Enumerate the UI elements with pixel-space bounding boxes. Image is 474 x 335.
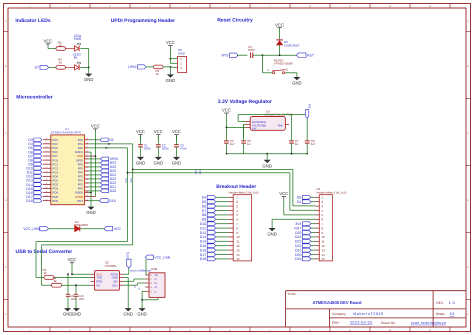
svg-text:10: 10 <box>321 235 325 239</box>
svg-text:100n: 100n <box>248 48 255 52</box>
svg-text:D-: D- <box>138 287 141 290</box>
svg-text:13: 13 <box>321 248 325 252</box>
svg-text:1u: 1u <box>295 142 299 146</box>
svg-text:11: 11 <box>321 240 324 244</box>
svg-text:1/1: 1/1 <box>450 312 455 316</box>
svg-text:MakerIoT2020: MakerIoT2020 <box>353 312 383 316</box>
svg-text:D1: D1 <box>297 200 302 204</box>
svg-text:D18: D18 <box>200 257 206 261</box>
svg-text:VCC: VCC <box>43 38 52 43</box>
svg-text:Breakout Header: Breakout Header <box>216 184 256 190</box>
svg-text:1k: 1k <box>156 72 160 76</box>
svg-text:GND: GND <box>154 161 164 166</box>
svg-text:D11: D11 <box>200 226 206 230</box>
svg-text:GND: GND <box>292 81 302 86</box>
svg-text:9: 9 <box>46 182 47 185</box>
svg-text:Header-Male-2.54_1x15: Header-Male-2.54_1x15 <box>317 190 348 194</box>
svg-text:VCC: VCC <box>279 191 288 196</box>
svg-text:D23: D23 <box>295 240 301 244</box>
svg-text:TAB: TAB <box>277 124 282 127</box>
svg-text:D18: D18 <box>26 199 32 203</box>
svg-text:BL: BL <box>74 56 78 60</box>
svg-text:D7: D7 <box>202 209 207 213</box>
svg-text:D24: D24 <box>295 235 301 239</box>
svg-text:D13: D13 <box>200 235 206 239</box>
svg-text:UPDI: UPDI <box>128 65 136 69</box>
svg-text:47uF: 47uF <box>180 147 187 151</box>
svg-text:4u7: 4u7 <box>230 142 235 146</box>
svg-text:31: 31 <box>46 141 48 144</box>
svg-text:D17: D17 <box>200 253 206 257</box>
svg-text:7: 7 <box>46 174 47 177</box>
svg-text:D20: D20 <box>295 253 301 257</box>
svg-text:D7: D7 <box>35 66 40 70</box>
svg-text:19: 19 <box>86 178 88 181</box>
svg-text:GND: GND <box>72 312 82 317</box>
svg-text:VCC: VCC <box>91 124 100 129</box>
svg-text:D5: D5 <box>202 200 207 204</box>
svg-text:D6: D6 <box>202 204 207 208</box>
svg-text:UPDI: UPDI <box>178 52 185 56</box>
svg-text:GND: GND <box>86 210 96 215</box>
svg-text:D14: D14 <box>200 240 206 244</box>
svg-text:2023-02-03: 2023-02-03 <box>350 321 372 325</box>
svg-text:12: 12 <box>46 194 48 197</box>
svg-text:2: 2 <box>46 154 47 157</box>
svg-text:VCC: VCC <box>154 129 163 134</box>
svg-text:RTS: RTS <box>221 54 229 58</box>
svg-text:ATMEGA4808-AFR: ATMEGA4808-AFR <box>51 131 82 135</box>
svg-text:1k: 1k <box>43 271 47 275</box>
svg-text:REV:: REV: <box>436 301 443 305</box>
svg-text:Sheet:: Sheet: <box>436 312 445 316</box>
svg-text:VCC: VCC <box>136 129 145 134</box>
svg-text:13: 13 <box>46 198 48 201</box>
svg-text:21: 21 <box>86 170 88 173</box>
svg-text:GND: GND <box>262 163 272 168</box>
svg-text:RXD: RXD <box>130 178 133 183</box>
svg-text:D19: D19 <box>109 199 115 203</box>
svg-text:3V3: 3V3 <box>295 222 301 226</box>
svg-text:14: 14 <box>321 253 325 257</box>
svg-text:6: 6 <box>46 170 47 173</box>
svg-text:CH330N: CH330N <box>105 264 117 268</box>
svg-text:15: 15 <box>321 257 325 261</box>
svg-text:D-: D- <box>155 278 158 281</box>
svg-text:ID: ID <box>155 286 158 289</box>
svg-text:VCC_USB: VCC_USB <box>23 227 40 231</box>
svg-text:GND: GND <box>267 232 277 237</box>
svg-text:GND: GND <box>166 78 176 83</box>
svg-text:D19: D19 <box>295 257 301 261</box>
svg-text:D10: D10 <box>200 222 206 226</box>
svg-text:ATMEGA4808 DEV Board: ATMEGA4808 DEV Board <box>312 300 362 305</box>
svg-text:14: 14 <box>236 253 240 257</box>
svg-text:23: 23 <box>86 162 88 165</box>
svg-text:3.3V Voltage Regulator: 3.3V Voltage Regulator <box>218 99 272 105</box>
svg-text:G: G <box>155 290 157 293</box>
svg-text:RST: RST <box>307 54 315 58</box>
svg-text:VCC: VCC <box>222 108 231 113</box>
svg-text:1k: 1k <box>53 279 57 283</box>
svg-text:D21: D21 <box>295 248 301 252</box>
svg-text:1.0: 1.0 <box>449 301 455 305</box>
svg-text:Indicator LEDs: Indicator LEDs <box>15 18 51 24</box>
svg-text:10: 10 <box>46 186 48 189</box>
svg-text:2: 2 <box>286 68 288 72</box>
svg-text:18: 18 <box>86 182 88 185</box>
svg-text:D12: D12 <box>200 231 206 235</box>
svg-text:TITLE:: TITLE: <box>288 292 297 296</box>
svg-text:D20: D20 <box>110 189 116 193</box>
svg-text:VCC_USB: VCC_USB <box>154 256 170 260</box>
svg-text:11: 11 <box>46 190 48 193</box>
svg-text:RTS: RTS <box>126 252 130 258</box>
svg-text:13: 13 <box>236 248 240 252</box>
svg-text:PD7: PD7 <box>77 199 83 203</box>
svg-text:22: 22 <box>86 166 88 169</box>
svg-text:D15: D15 <box>200 244 206 248</box>
svg-text:4: 4 <box>46 162 47 165</box>
svg-text:Reset Circuitry: Reset Circuitry <box>217 18 253 24</box>
svg-text:D25: D25 <box>295 231 301 235</box>
svg-text:1u: 1u <box>247 142 251 146</box>
svg-text:UPDI Programming Header: UPDI Programming Header <box>111 18 175 24</box>
svg-text:Company:: Company: <box>332 312 347 316</box>
svg-text:Drawn By:: Drawn By: <box>381 321 396 325</box>
svg-text:1: 1 <box>46 150 47 153</box>
svg-text:1N5819WS: 1N5819WS <box>284 44 299 48</box>
svg-text:20: 20 <box>86 174 88 177</box>
svg-text:RST: RST <box>294 226 302 230</box>
svg-text:1k: 1k <box>59 61 63 65</box>
svg-text:10: 10 <box>236 235 240 239</box>
svg-text:jean.redelinghuys: jean.redelinghuys <box>410 321 446 325</box>
svg-text:5: 5 <box>46 166 47 169</box>
svg-text:VCC: VCC <box>166 40 175 45</box>
svg-text:D8: D8 <box>202 213 207 217</box>
svg-text:TPS425-18430: TPS425-18430 <box>274 62 293 66</box>
svg-text:GND: GND <box>84 77 94 82</box>
svg-text:GND: GND <box>137 312 147 317</box>
svg-text:GND: GND <box>136 161 146 166</box>
svg-text:VB: VB <box>155 274 159 277</box>
svg-text:GND: GND <box>123 312 133 317</box>
svg-text:4u7: 4u7 <box>311 142 316 146</box>
svg-text:RX2: RX2 <box>199 169 202 174</box>
svg-text:VCC: VCC <box>114 227 122 231</box>
svg-text:VCC: VCC <box>275 22 284 27</box>
svg-text:12: 12 <box>321 244 325 248</box>
svg-text:micro USBfemale: micro USBfemale <box>130 270 151 273</box>
svg-text:VCC: VCC <box>67 257 76 262</box>
svg-text:PD6: PD6 <box>52 199 58 203</box>
svg-text:30: 30 <box>46 137 48 140</box>
svg-text:100n: 100n <box>144 147 151 151</box>
svg-text:D4: D4 <box>202 196 207 200</box>
svg-text:GND: GND <box>172 161 182 166</box>
svg-text:VIN: VIN <box>252 127 257 130</box>
svg-text:VCC: VCC <box>172 129 181 134</box>
svg-text:D16: D16 <box>200 248 206 252</box>
svg-text:100n: 100n <box>78 298 84 301</box>
svg-text:TX2: TX2 <box>195 169 198 174</box>
svg-text:D0: D0 <box>297 196 302 200</box>
svg-text:USB: USB <box>151 267 157 271</box>
svg-text:3V3: 3V3 <box>308 103 312 108</box>
svg-text:Header-Male-2.54_1x15: Header-Male-2.54_1x15 <box>229 190 260 194</box>
svg-text:8: 8 <box>46 178 47 181</box>
svg-text:D2: D2 <box>109 138 114 142</box>
svg-text:100n: 100n <box>162 147 169 151</box>
svg-text:3: 3 <box>46 158 47 161</box>
svg-text:PWR: PWR <box>74 37 82 41</box>
svg-text:V3: V3 <box>96 283 100 287</box>
svg-text:USB to Serial Converter: USB to Serial Converter <box>16 249 73 255</box>
svg-text:Microcontroller: Microcontroller <box>16 95 52 101</box>
svg-text:12: 12 <box>236 244 240 248</box>
svg-text:15: 15 <box>236 257 240 261</box>
svg-text:D22: D22 <box>295 244 301 248</box>
svg-text:D9: D9 <box>202 218 207 222</box>
svg-text:11: 11 <box>236 240 239 244</box>
svg-text:UD+: UD+ <box>112 283 118 287</box>
svg-text:32: 32 <box>46 146 48 149</box>
svg-text:TXD: TXD <box>125 178 128 183</box>
svg-text:Date:: Date: <box>332 321 340 325</box>
svg-text:1: 1 <box>267 68 269 72</box>
